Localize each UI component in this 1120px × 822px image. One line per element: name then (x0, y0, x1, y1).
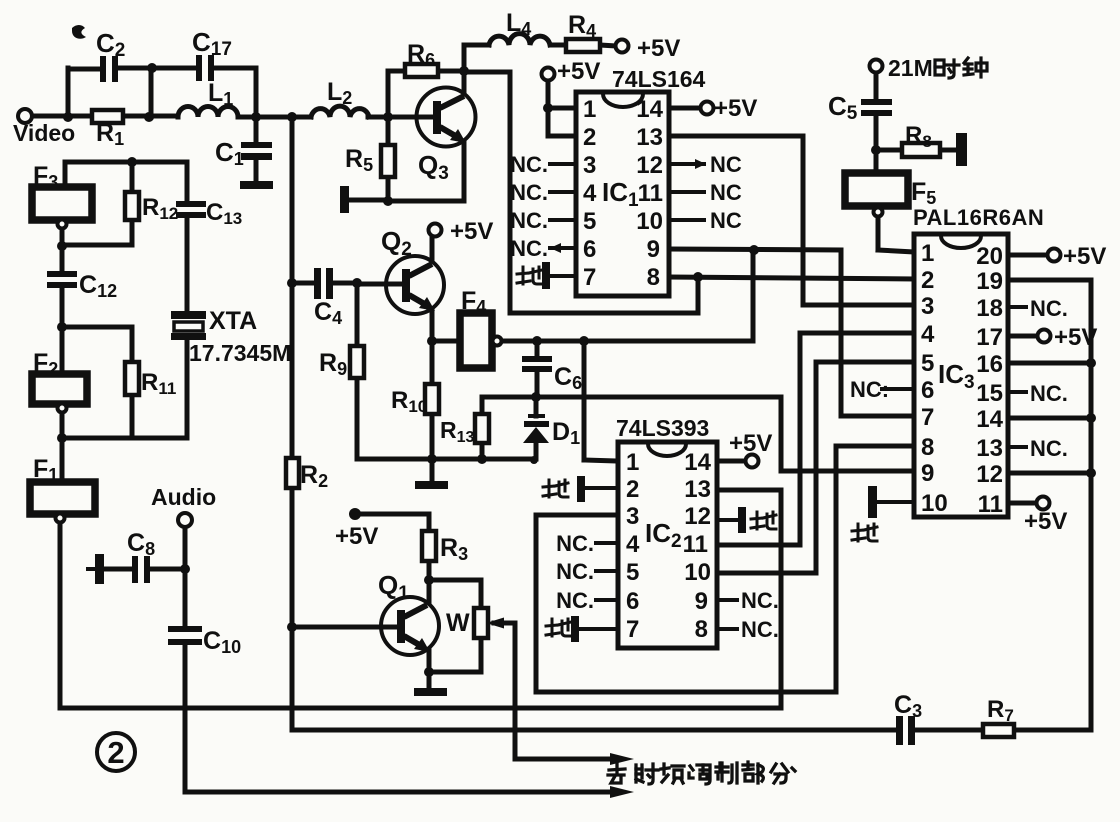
wire IC1 pin8 long line to IC3 pin2 (669, 277, 914, 279)
char 去 (608, 763, 625, 783)
wire IC2 pin13 lead right (717, 488, 781, 493)
wire R6 right lead to collector column (438, 69, 464, 74)
crystal XTA 17.7345M (171, 311, 206, 340)
char 射 (636, 764, 658, 784)
svg-text:2: 2 (626, 476, 639, 503)
svg-text:W: W (446, 609, 470, 637)
svg-text:2: 2 (107, 735, 124, 770)
resistor R8 (902, 143, 940, 157)
F1 output terminal circle (56, 514, 65, 523)
ground bar under C1 (240, 181, 273, 189)
ground label 地 at IC2 pin2 (543, 480, 568, 497)
svg-text:13: 13 (976, 435, 1003, 462)
wire crystal down to y438 rail (185, 341, 190, 438)
junction IC1 pin9 with F4 riser (749, 245, 759, 255)
wire F3 top branch horizontal (65, 160, 187, 165)
resistor R13 (475, 414, 489, 443)
IC3 pin numbers left 1-10 (921, 240, 948, 517)
wire IC3 pin17 lead to +5V (1008, 334, 1038, 339)
junction C6 on F4 line (532, 336, 542, 346)
svg-text:NC.: NC. (510, 152, 548, 177)
IC1 NC stub pin3 (550, 162, 576, 166)
wire F4 output line to riser x753 (501, 339, 753, 344)
svg-text:74LS393: 74LS393 (616, 415, 709, 441)
svg-text:NC: NC (710, 152, 742, 177)
svg-text:1: 1 (583, 96, 596, 123)
wire C6 top stem (535, 341, 540, 357)
svg-text:2: 2 (921, 267, 934, 294)
wire y362 into IC3 pin5 (816, 360, 914, 365)
wire main vertical bus x292 from video line down to R2 (290, 117, 295, 458)
wire Q3 ground bar to emitter line (349, 198, 388, 203)
svg-text:3: 3 (921, 293, 934, 320)
junction right riser pin16 (1086, 358, 1096, 368)
filter F5 (845, 173, 908, 206)
IC2 NC stub pin5 (596, 569, 618, 573)
IC1 ground bar pin7 (542, 262, 576, 289)
wire C13 top stem (185, 162, 190, 201)
filter F3 (32, 187, 92, 220)
terminal +5V Q2 collector (429, 224, 442, 237)
wire emitter resistor common rail y459 (357, 457, 536, 462)
wire y333 into IC3 pin4 (800, 331, 914, 336)
figure number 2 circled (97, 733, 135, 771)
IC1 NC stub pin12 (669, 162, 704, 166)
arrowhead into W wiper (486, 618, 504, 629)
junction R3-W-Q1 collector (424, 575, 434, 585)
resistor R9 (350, 346, 364, 378)
resistor R11 (125, 362, 139, 395)
capacitor C4 (314, 268, 333, 299)
wire x698 up to IC1 pin8 line (696, 277, 701, 313)
IC3 ground bar pin10 (868, 486, 914, 518)
wire x836 riser to IC3 pin8 row (834, 446, 839, 692)
char 调 (689, 765, 710, 784)
ground bar Q3 emitter (340, 186, 349, 213)
wire wiper riser x515 down (513, 623, 518, 759)
wire main line L2 to Q3 base (368, 115, 418, 120)
wire IC1 pin9 line right (669, 249, 841, 250)
wire bottom of x510 route to x698 (510, 311, 698, 316)
F4 output terminal circle (493, 337, 502, 346)
junction R12 top branch (127, 157, 137, 167)
wire C4 left lead from x292 bus (292, 281, 315, 286)
F5 output terminal circle (874, 208, 883, 217)
ground bar Q2 emitter (415, 481, 448, 489)
ground label 地 at IC1 pin7 (517, 267, 542, 284)
IC2 pin numbers left 1-7 (626, 449, 640, 643)
filter F1 (30, 482, 95, 514)
wire x781 riser pin13 down to bottom rail (779, 490, 784, 708)
IC1 74LS164 body (576, 92, 669, 296)
svg-text:7: 7 (626, 616, 639, 643)
svg-text:NC.: NC. (741, 588, 779, 613)
wire F5 to IC3 pin1 (878, 250, 914, 252)
terminator bar left of C8 (88, 554, 104, 584)
resistor R12 (125, 192, 139, 220)
IC2 notch (648, 444, 686, 456)
resistor R10 (425, 384, 439, 414)
wire IC3 pin11 lead to +5V (1008, 501, 1037, 506)
wire R3 top lead (427, 514, 432, 531)
filter F2 (32, 374, 87, 404)
wire 21M clock terminal down to C5 (874, 73, 879, 100)
+5V solid terminal near Q1 (349, 508, 361, 520)
wire R5 bottom lead (386, 177, 391, 201)
wire R7 to right riser (1014, 728, 1091, 733)
wire IC2 pin10 lead right (717, 571, 816, 576)
wire W top lead (479, 580, 484, 608)
wire R9 top lead (355, 283, 360, 346)
F2 output terminal circle (58, 404, 67, 413)
inductor L1 (178, 107, 238, 117)
filter F4 (460, 313, 492, 368)
resistor R7 (983, 724, 1014, 737)
svg-text:17.7345M: 17.7345M (189, 340, 291, 366)
svg-text:6: 6 (583, 236, 596, 263)
wire R4 to +5V terminal (600, 45, 616, 46)
junction x292 bus on main line (287, 112, 297, 122)
svg-text:2: 2 (583, 124, 596, 151)
junction IC1 pins1-2 +5V (543, 103, 553, 113)
junction right riser pin14 (1086, 413, 1096, 423)
svg-text:18: 18 (976, 295, 1003, 322)
wire Audio column below C10 (183, 645, 188, 792)
wire F5 output stem (876, 217, 881, 250)
wire F1 bottom column (58, 522, 63, 708)
wire C5 bottom to F5 (874, 116, 879, 173)
svg-text:NC.: NC. (1030, 296, 1068, 321)
junction R13 bottom rail (477, 454, 487, 464)
wire C1 bottom stem to ground bar (254, 159, 259, 182)
svg-text:5: 5 (626, 559, 639, 586)
Chinese text 去射频调制部分 (to RF modulator section) (608, 762, 795, 784)
terminal +5V IC3 pin20 (1048, 249, 1061, 262)
IC2 NC labels left pins 4-6 (556, 531, 594, 613)
inductor L2 (311, 106, 369, 117)
wire C17 to corner (215, 66, 256, 71)
junction Q3 base node (383, 112, 393, 122)
IC2 ground bar pin2 (577, 476, 618, 502)
wire IC1 pin13 lead right (669, 134, 803, 139)
wire Q3 emitter to R5 bottom (388, 199, 464, 204)
IC2 ground bar pin7 (571, 616, 618, 642)
capacitor C17 (196, 55, 214, 81)
junction Q2 base R9 node (352, 278, 362, 288)
wire Q1 base line from x292 bus (292, 625, 382, 630)
svg-text:6: 6 (921, 377, 934, 404)
IC1 NC labels left pins 3-6 (510, 152, 548, 261)
wire R13 bottom stem (480, 443, 485, 459)
svg-text:1: 1 (626, 449, 639, 476)
IC3 NC stub pin15 (1008, 390, 1026, 394)
wire bottom rail y708 from F1 to x781 (60, 706, 781, 711)
char 分 (771, 764, 788, 783)
IC1 NC stub pin5 (550, 218, 576, 222)
junction R1 right on main line (144, 112, 154, 122)
resistor R5 (381, 145, 395, 177)
junction D1 bottom rail (530, 456, 538, 464)
diode D1 (523, 414, 549, 443)
terminal +5V IC3 pin11 (1037, 497, 1050, 510)
wire IC3 pin16 lead to right riser (1008, 361, 1091, 366)
svg-text:14: 14 (636, 96, 663, 123)
wire x800 riser pin11 to IC3 pin4 row (798, 333, 803, 545)
wire C1 top stem (254, 117, 259, 143)
wire y416 into IC3 pin7 (841, 414, 914, 419)
svg-text:11: 11 (683, 531, 708, 558)
wire Q3 collector up to L4 corner (462, 45, 467, 95)
trailing mark (792, 768, 795, 771)
svg-text:NC.: NC. (556, 588, 594, 613)
potentiometer W (474, 608, 488, 638)
arrowhead RF 1 (610, 753, 634, 765)
wire video input line left of R1 (31, 114, 178, 119)
svg-text:74LS164: 74LS164 (612, 66, 706, 92)
wire R9 bottom lead (355, 378, 360, 459)
wire R5 top lead from main line (386, 117, 391, 145)
char 频 (661, 764, 684, 783)
wire to RF modulator arrow 1 (515, 757, 618, 762)
terminal Video (18, 109, 32, 123)
wire +5V feed of IC1 pins 1-2 vertical (546, 81, 551, 136)
terminal +5V IC1 pin14 (701, 102, 714, 115)
wire Q2 emitter down to F4 node (430, 310, 435, 341)
wire R11 top lead (130, 327, 135, 362)
wire Q2 base lead (357, 282, 387, 287)
IC1 pin numbers left 1-7 (583, 96, 597, 291)
svg-text:+5V: +5V (557, 58, 600, 85)
ground label 地 at IC2 pin12 (751, 512, 776, 529)
svg-text:5: 5 (583, 208, 596, 235)
svg-text:NC.: NC. (741, 617, 779, 642)
wire R12 top lead (130, 162, 135, 192)
inductor L4 (489, 34, 550, 45)
junction IC1 pin8 with R6 route (693, 272, 703, 282)
svg-text:7: 7 (583, 264, 596, 291)
capacitor C8 (132, 556, 150, 583)
wire D1 top stem (534, 397, 539, 416)
wire Q1 emitter down (427, 651, 432, 672)
wire x510 riser down around IC1 (508, 72, 513, 313)
svg-text:NC.: NC. (510, 236, 548, 261)
wire y446 into IC3 pin8 (836, 444, 914, 449)
IC1 NC labels right pins 12-10 (710, 152, 742, 233)
wire Q1 +5V feed horizontal (359, 512, 429, 517)
IC3 NC stub pin18 (1008, 305, 1026, 309)
wire C8 left lead from terminator (101, 567, 132, 572)
svg-text:NC.: NC. (556, 531, 594, 556)
wire R8 left lead (876, 148, 902, 153)
svg-text:+5V: +5V (714, 95, 757, 122)
svg-text:1: 1 (921, 240, 934, 267)
capacitor C6 (522, 356, 552, 372)
wire Q3 base vertical to R6 level (386, 71, 391, 117)
wire F3 top stem (63, 162, 68, 187)
wire IC2 pin1 lead (584, 460, 618, 461)
svg-text:11: 11 (638, 180, 663, 207)
terminator bar right of R8 (956, 133, 967, 166)
wire W wiper arrow line (494, 621, 515, 626)
IC2 NC stub pin9 (717, 598, 737, 602)
svg-text:17: 17 (976, 324, 1003, 351)
IC1 NC stub pin10 (669, 218, 704, 222)
wire bottom node rail y438 (62, 436, 187, 441)
wire vertical from C2-C17 junction down to main line (149, 68, 154, 117)
wire Q1 ground stem (427, 672, 432, 688)
svg-text:7: 7 (921, 404, 934, 431)
svg-text:16: 16 (976, 351, 1003, 378)
terminal 21M clock (870, 60, 883, 73)
svg-text:3: 3 (626, 503, 639, 530)
wire R12 bottom lead (130, 220, 135, 245)
svg-text:Video: Video (13, 120, 75, 146)
transistor Q2 (386, 256, 444, 314)
svg-text:9: 9 (695, 588, 708, 615)
wire x841 riser down to IC3 pin7 row (839, 250, 844, 416)
IC3 notch (941, 236, 981, 248)
svg-text:5: 5 (921, 350, 934, 377)
wire audio bottom rail to RF arrow 2 (185, 790, 618, 795)
wire corner down to main line at C1 node (254, 68, 259, 117)
wire IC1 pin2 lead (548, 134, 576, 139)
wire feedback rail y692 (536, 690, 836, 695)
resistor R3 (422, 531, 436, 561)
junction R6-collector column (459, 66, 469, 76)
char 制 (716, 763, 737, 783)
svg-text:4: 4 (583, 180, 597, 207)
wire F1 top stem (60, 438, 65, 482)
wire F4 node branch down to IC2 pin1 (582, 341, 587, 460)
wire W bottom lead (479, 638, 484, 672)
capacitor C13 (176, 201, 206, 218)
wire C2 branch left segment (68, 67, 101, 72)
svg-text:10: 10 (921, 490, 948, 517)
wire R11 bottom lead (130, 395, 135, 438)
wire IC1 pin14 lead to +5V (669, 106, 700, 111)
svg-text:6: 6 (626, 588, 639, 615)
wire C3 to R7 (915, 728, 983, 733)
wire C4 right lead to Q2 base node (334, 281, 357, 286)
wire C8 right lead to audio column (150, 567, 185, 572)
svg-text:13: 13 (636, 124, 663, 151)
wire F2 top stem (60, 327, 65, 374)
junction video-C2 branch (63, 112, 73, 122)
svg-text:NC:: NC: (850, 377, 889, 402)
IC2 pin numbers right 14-8 (683, 449, 712, 643)
resistor R6 (405, 64, 438, 77)
svg-text:21M: 21M (888, 55, 933, 81)
IC3 PAL16R6AN body (914, 234, 1008, 517)
terminal Audio (178, 513, 192, 527)
svg-text:NC.: NC. (556, 559, 594, 584)
Chinese char 时 of clock label (935, 60, 959, 78)
wire IC2 pin3 lead (536, 513, 618, 518)
svg-text:8: 8 (647, 264, 660, 291)
svg-text:4: 4 (626, 531, 640, 558)
wire Q2 ground stem (430, 459, 435, 482)
wire C6 bottom stem (535, 372, 540, 397)
IC3 pin numbers right 20-11 (976, 243, 1003, 518)
svg-text:NC.: NC. (1030, 381, 1068, 406)
IC2 ground stub pin12 (717, 507, 746, 533)
IC1 NC stub pin6 (550, 246, 576, 250)
junction R10 bottom rail (427, 454, 437, 464)
wire R10 bottom to rail (430, 414, 435, 459)
junction R5 bottom emitter rail (383, 196, 393, 206)
wire R3 bottom lead to Q1 collector (427, 561, 432, 603)
wire IC3 pin14 lead to right riser (1008, 416, 1091, 421)
junction Audio-C8 node (180, 564, 190, 574)
wire Q2 collector up to +5V (430, 237, 435, 260)
wire R6 node to x510 riser (464, 70, 510, 75)
wire D1 bottom stem (534, 442, 539, 459)
wire C12 node to R11 column (62, 325, 132, 330)
terminal +5V after R4 (616, 40, 629, 53)
wire IC3 pin12 lead to right riser (1008, 471, 1091, 476)
wire R12 bottom across to F3 bottom node (62, 243, 132, 248)
svg-text:8: 8 (695, 616, 708, 643)
wire IC1 pin1 lead (548, 106, 576, 111)
svg-text:14: 14 (684, 449, 711, 476)
wire F4 input lead (432, 339, 460, 344)
svg-text:8: 8 (921, 434, 934, 461)
wire IC2 pin11 lead right (717, 543, 800, 548)
F3 output terminal circle (58, 220, 67, 229)
svg-text:+5V: +5V (729, 430, 772, 457)
svg-text:XTA: XTA (209, 307, 257, 335)
ground label 地 at IC2 pin7 (546, 619, 571, 636)
wire F3 bottom to C12 node (60, 228, 65, 272)
IC1 notch (603, 94, 643, 107)
wire right riser x1091 up to IC3 pin19 (1089, 280, 1094, 730)
wire reset rail y397 R13 to x781 riser (482, 395, 781, 400)
capacitor C1 (241, 142, 272, 160)
junction right riser pin12 (1086, 468, 1096, 478)
svg-text:9: 9 (647, 236, 660, 263)
junction C4 branch on x292 bus (287, 278, 297, 288)
wire L4 to R4 (551, 43, 566, 48)
wire Q3 emitter column down (462, 138, 467, 201)
capacitor C12 (47, 271, 77, 288)
wire R13 top stem (480, 397, 485, 414)
wire L4 corner to coil (464, 43, 489, 48)
IC2 NC stub pin4 (596, 541, 618, 545)
wire R6 left lead (388, 69, 405, 74)
wire IC1 pin13 riser x803 down (801, 136, 806, 305)
wire Q1 collector node right to W top (429, 578, 481, 583)
wire y471 line to IC3 pin9 (781, 469, 914, 474)
wire main line L1 to L2 (238, 115, 311, 120)
svg-text:12: 12 (684, 503, 711, 530)
capacitor C5 (861, 99, 892, 116)
junction C1 node (251, 112, 261, 122)
svg-text:NC: NC (710, 180, 742, 205)
junction Q2 emitter F4 node (427, 336, 437, 346)
wire C13 down to crystal (185, 217, 190, 311)
wire Q2 emitter node down to R10 (430, 341, 435, 384)
svg-text:NC.: NC. (510, 208, 548, 233)
junction F3 bottom R12 node (57, 241, 67, 251)
svg-text:NC.: NC. (510, 180, 548, 205)
wire x536 riser to IC2 pin3 row (534, 515, 539, 692)
junction C2-C17 top (147, 63, 157, 73)
svg-text:15: 15 (976, 380, 1003, 407)
IC3 NC stub pin6 (882, 387, 914, 391)
svg-text:NC.: NC. (1030, 436, 1068, 461)
svg-text:9: 9 (921, 460, 934, 487)
svg-text:12: 12 (976, 461, 1003, 488)
